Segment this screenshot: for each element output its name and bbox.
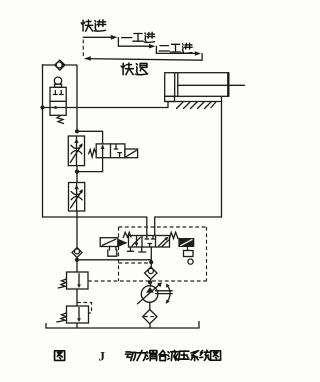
- tank line: [46, 322, 199, 329]
- wire pressure line to left valves: [77, 259, 151, 261]
- label 二工进: [159, 43, 192, 53]
- flow valve FV2: [69, 183, 85, 212]
- pump P1 variable vane: [138, 282, 163, 304]
- node below FV1: [75, 170, 79, 174]
- node left pressure: [75, 258, 79, 262]
- check valve CV1 top-left: [55, 60, 66, 70]
- bypass check valve CV2: [72, 248, 82, 258]
- travel valve XV roller: [54, 77, 61, 87]
- slide table hatching: [177, 102, 216, 109]
- cylinder CYL body: [165, 72, 229, 96]
- directional valve DV body: [129, 236, 170, 248]
- wire cycle dashed drop: [82, 40, 84, 57]
- DV tank drain: [108, 247, 117, 257]
- wire check valve row: [43, 65, 78, 132]
- solenoid valve coil: [125, 149, 138, 158]
- wire cylinder left port line: [43, 102, 169, 108]
- cylinder left port block: [165, 96, 175, 101]
- travel valve XV body: [50, 87, 66, 115]
- DV right solenoid: [178, 238, 194, 247]
- pressure relay PS: [184, 247, 194, 264]
- pilot dashed enclosure: [88, 227, 207, 281]
- caption 图 J 动力滑台液压系统图: [55, 351, 65, 361]
- wire B line: [155, 217, 222, 236]
- DV bottom stub 1: [128, 247, 134, 251]
- wire FV1 to FV2: [76, 166, 78, 183]
- wire to solenoid valve top: [77, 131, 103, 144]
- DV bottom stub 2: [139, 247, 146, 252]
- back pressure valve RV2: [57, 306, 89, 323]
- node pump outlet: [148, 280, 152, 284]
- RV2 pilot dashed loop: [77, 303, 92, 314]
- label 快退: [121, 63, 147, 75]
- wire cycle arrow fast-forward: [83, 35, 202, 61]
- solenoid valve spring: [89, 149, 97, 157]
- slide table line: [165, 101, 222, 103]
- DV left pilot arrow: [118, 239, 128, 247]
- wire RV2 to tank: [76, 323, 78, 328]
- solenoid valve SV body: [96, 144, 125, 158]
- cylinder piston rod: [228, 84, 244, 86]
- wire FV2 down to bypass check: [76, 211, 78, 248]
- travel valve spring: [57, 116, 64, 124]
- filter F1: [143, 310, 157, 324]
- node pilot tap: [149, 260, 153, 264]
- node rail-cylinder line: [40, 105, 44, 109]
- label 一工进: [122, 32, 155, 42]
- wire P drop: [150, 247, 152, 267]
- DV spring left-top: [123, 232, 131, 237]
- wire rod side port line: [221, 96, 223, 217]
- node above FV1: [75, 129, 79, 133]
- pump check valve CV3: [145, 267, 157, 279]
- wire solenoid valve bottom: [77, 158, 103, 172]
- label 快进: [81, 20, 106, 31]
- wire pump to check: [150, 279, 152, 286]
- wire filter to tank: [149, 324, 151, 328]
- DV left solenoid: [100, 238, 118, 247]
- wire A line: [43, 217, 147, 236]
- wire left rail: [42, 65, 44, 218]
- DV spring right-top: [169, 232, 178, 239]
- pump compensator: [156, 284, 173, 304]
- wire pump to filter: [149, 302, 151, 309]
- svg-text:J: J: [99, 349, 106, 364]
- wire RV1 connections: [76, 260, 78, 306]
- flow valve FV1: [68, 136, 84, 166]
- relief valve RV1: [58, 272, 88, 289]
